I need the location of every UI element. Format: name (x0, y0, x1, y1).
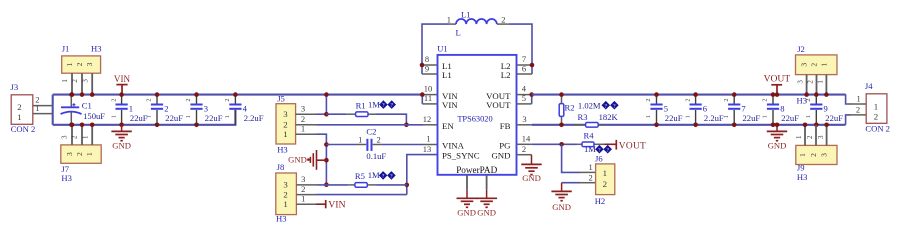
wire U1 pin 2 (GND) (517, 154, 532, 156)
inductor L1 (L) (447, 10, 509, 38)
svg-text:1: 1 (146, 115, 153, 118)
svg-text:1: 1 (283, 199, 287, 209)
svg-text:12: 12 (423, 114, 432, 124)
svg-text:1: 1 (588, 162, 592, 172)
svg-text:3: 3 (301, 174, 305, 184)
header J5 (H3) (276, 94, 296, 155)
power flag VOUT (rail) (764, 74, 791, 95)
svg-text:H3: H3 (276, 214, 287, 224)
svg-text:2: 2 (874, 111, 878, 121)
wire PowerPAD pin left (466, 175, 468, 189)
svg-text:1: 1 (185, 115, 192, 118)
wire U1 pin 2 label (522, 144, 526, 154)
svg-text:VOUT: VOUT (619, 141, 646, 151)
wire U1 pin 9 (422, 63, 438, 74)
node junction J7 pins (70, 123, 95, 128)
wire R1 right to EN (376, 114, 406, 125)
svg-text:3: 3 (283, 109, 288, 119)
svg-text:1: 1 (447, 14, 451, 24)
wire VINA (C2 to U1.1) (382, 144, 438, 146)
svg-text:1: 1 (684, 115, 691, 118)
wire L1 loop left (422, 24, 450, 74)
resistor R5 (1M) (348, 170, 396, 187)
svg-text:14: 14 (522, 134, 531, 144)
svg-text:182K: 182K (599, 112, 619, 122)
resistor R3 (182K) (574, 112, 619, 127)
wire U1 pin 1 label (426, 134, 430, 144)
wire U1 pin 11 (422, 93, 437, 104)
svg-text:1: 1 (35, 103, 39, 113)
wire J1 pin 3 (81, 73, 92, 94)
svg-text:3: 3 (204, 104, 208, 114)
svg-text:PowerPAD: PowerPAD (456, 165, 497, 175)
header J6 (H2) (595, 154, 615, 206)
svg-text:22uF: 22uF (165, 113, 183, 123)
svg-text:3: 3 (796, 80, 804, 84)
svg-text:1: 1 (762, 115, 769, 118)
svg-text:22uF: 22uF (825, 113, 843, 123)
node junction C1 (69, 92, 74, 127)
svg-text:2: 2 (856, 104, 860, 114)
wire J3 vertical (52, 95, 54, 125)
wire U1 pin 6 (517, 63, 533, 74)
svg-text:2: 2 (501, 14, 505, 24)
svg-text:1M: 1M (368, 170, 380, 180)
svg-text:2: 2 (164, 104, 168, 114)
header J1 (H3) (62, 44, 102, 74)
header J8 (H3) (276, 162, 297, 224)
svg-text:J5: J5 (277, 94, 285, 104)
capacitor 5 (22uF) (645, 95, 682, 125)
svg-text:2: 2 (283, 120, 287, 130)
svg-text:2: 2 (71, 79, 79, 83)
svg-text:1: 1 (723, 115, 730, 118)
svg-text:4: 4 (522, 84, 527, 94)
svg-text:H3: H3 (277, 144, 288, 154)
svg-text:3: 3 (522, 114, 526, 124)
svg-text:2: 2 (17, 102, 21, 112)
node junction pin 10 (420, 92, 425, 97)
resistor R1 (1M) (346, 99, 396, 116)
svg-text:H3: H3 (61, 173, 72, 183)
svg-text:1: 1 (129, 104, 133, 114)
capacitor 9 (22uF) (805, 95, 843, 125)
wire J4 pin 1 (846, 93, 867, 104)
svg-text:GND: GND (288, 154, 307, 164)
svg-text:2: 2 (809, 153, 818, 157)
svg-text:5: 5 (522, 93, 526, 103)
svg-text:3: 3 (61, 135, 69, 139)
svg-text:3: 3 (301, 104, 305, 114)
svg-text:GND: GND (768, 141, 787, 151)
wire R1 left (326, 113, 346, 115)
svg-text:1: 1 (426, 134, 430, 144)
svg-text:R4: R4 (584, 131, 595, 141)
svg-text:13: 13 (423, 144, 432, 154)
svg-text:J6: J6 (595, 154, 603, 164)
node junction cap9 (814, 92, 819, 127)
svg-text:1: 1 (85, 152, 94, 156)
capacitor C2 (0.1uF) (326, 127, 386, 161)
svg-text:22uF: 22uF (665, 113, 683, 123)
svg-text:4: 4 (243, 104, 248, 114)
wire J6 pin 2 (562, 173, 596, 183)
capacitor C1 (150uF) (61, 95, 106, 125)
node junction GND flag right (775, 123, 780, 128)
capacitor 3 (22uF) (185, 95, 222, 125)
svg-text:L1: L1 (442, 70, 452, 80)
svg-text:9: 9 (425, 63, 429, 73)
wire L1 loop right (509, 24, 532, 74)
svg-text:PG: PG (499, 141, 511, 151)
wire FB stub (517, 124, 532, 126)
svg-text:1: 1 (224, 115, 231, 118)
wire J5 pin 1 (296, 124, 317, 135)
svg-text:11: 11 (424, 93, 432, 103)
capacitor 8 (22uF) (762, 95, 799, 125)
svg-text:1: 1 (805, 115, 812, 118)
node junction VIN tie (324, 92, 329, 116)
svg-text:3: 3 (817, 135, 825, 139)
ground U1 pin 2 (521, 155, 541, 184)
node GND bottom rail (right) (532, 124, 846, 126)
svg-text:R1: R1 (356, 100, 366, 110)
svg-text:22uF: 22uF (205, 113, 223, 123)
svg-text:2: 2 (810, 63, 819, 67)
svg-text:L1: L1 (461, 10, 471, 20)
wire J7 pin 2 (71, 125, 82, 145)
svg-text:L2: L2 (501, 70, 511, 80)
svg-text:1M: 1M (368, 99, 380, 109)
svg-text:1: 1 (301, 124, 305, 134)
node VOUT top rail (right) (532, 94, 846, 96)
wire J7 pin 3 (61, 125, 72, 145)
header J2 (H3) (796, 44, 838, 105)
svg-text:2: 2 (376, 134, 380, 144)
svg-text:22uF: 22uF (781, 113, 799, 123)
node junction C2 branch (324, 142, 329, 147)
svg-text:2: 2 (75, 152, 84, 156)
svg-text:2: 2 (806, 135, 814, 139)
svg-text:1: 1 (17, 112, 21, 122)
svg-text:2: 2 (185, 98, 192, 101)
svg-text:2: 2 (283, 190, 287, 200)
wire J2 pin 3 (796, 75, 806, 95)
ground PowerPAD right (476, 189, 497, 217)
svg-text:VIN: VIN (442, 100, 458, 110)
svg-text:2: 2 (522, 144, 526, 154)
node junction R5/PS_SYNC (405, 183, 410, 188)
wire J2 pin 2 (807, 75, 817, 95)
wire U1 pin 3 label (522, 114, 526, 124)
svg-text:1: 1 (358, 134, 362, 144)
wire U1 pin 13 label (423, 144, 432, 154)
IC U1 TPS63020 (437, 44, 516, 176)
svg-text:2: 2 (110, 98, 117, 101)
node junction VOUT flag (775, 92, 780, 97)
capacitor 6 (2.2uF) (684, 95, 724, 125)
wire U1 pin 5 (517, 93, 532, 104)
svg-text:3: 3 (81, 79, 89, 83)
svg-text:C2: C2 (366, 127, 376, 137)
node junction pin 8 (420, 63, 425, 68)
capacitor 1 (22uF) (110, 95, 147, 125)
wire J5 pin 3 (296, 104, 327, 115)
svg-text:1: 1 (795, 135, 803, 139)
node junction cap4 (233, 92, 238, 97)
wire U1 pin 14 label (522, 134, 531, 144)
node junction J2 pins (804, 92, 828, 97)
node junction cap6 (693, 92, 698, 127)
wire R5 right (377, 184, 407, 186)
wire J3 pin 2 (33, 95, 53, 106)
wire GND net vertical (317, 134, 327, 185)
svg-text:VINA: VINA (442, 141, 465, 151)
connector J4 CON 2 (865, 81, 890, 133)
svg-text:2: 2 (645, 98, 652, 101)
svg-text:R5: R5 (355, 171, 365, 181)
node junction PG/J6 (559, 142, 564, 147)
node junction cap1 (119, 92, 124, 127)
svg-text:3: 3 (85, 62, 94, 66)
wire J1 pin 1 (61, 73, 72, 94)
svg-text:FB: FB (500, 121, 511, 131)
svg-text:22uF: 22uF (743, 113, 761, 123)
wire J6 pin 1 (562, 144, 596, 172)
svg-text:R3: R3 (578, 112, 588, 122)
node junction cap8 (771, 92, 776, 127)
svg-text:H2: H2 (595, 196, 606, 206)
svg-text:3: 3 (65, 152, 74, 156)
power flag VOUT (PG) (605, 140, 647, 151)
svg-text:GND: GND (522, 173, 541, 183)
svg-text:2: 2 (146, 98, 153, 101)
svg-text:TPS63020: TPS63020 (457, 115, 492, 124)
wire J8 pin 2 (296, 184, 406, 195)
node junction cap7 (732, 92, 737, 127)
wire PG (U1.14) (517, 143, 578, 145)
resistor R4 (1M) (577, 131, 612, 154)
node junction R1/EN (404, 123, 409, 128)
ground PowerPAD left (457, 189, 478, 217)
svg-text:2: 2 (684, 98, 691, 101)
svg-text:VOUT: VOUT (764, 74, 791, 85)
svg-text:GND: GND (457, 208, 476, 218)
svg-text:2: 2 (603, 179, 607, 189)
svg-text:1: 1 (81, 135, 89, 139)
svg-text:1: 1 (283, 129, 287, 139)
connector J3 CON 2 (11, 82, 36, 134)
svg-text:1: 1 (819, 63, 828, 67)
svg-text:5: 5 (664, 104, 668, 114)
wire J5 pin 2 (296, 114, 317, 125)
svg-text:GND: GND (491, 151, 510, 161)
svg-text:1: 1 (817, 80, 825, 84)
svg-text:J8: J8 (277, 162, 285, 172)
ground J6 (551, 183, 571, 213)
svg-text:VOUT: VOUT (486, 100, 511, 110)
U1 pin names (442, 61, 511, 161)
node junction cap3 (194, 92, 199, 127)
node junction R2 (559, 92, 564, 127)
svg-text:7: 7 (741, 104, 746, 114)
power flag VIN (J8) (316, 199, 346, 210)
svg-text:1: 1 (61, 79, 69, 83)
svg-text:3: 3 (800, 63, 809, 67)
wire U1 pin 8 (422, 54, 438, 65)
svg-text:2.2uF: 2.2uF (244, 113, 264, 123)
wire J1 pin 2 (71, 73, 82, 94)
power flag GND (left) (288, 150, 326, 170)
svg-text:2: 2 (71, 135, 79, 139)
node junction pin 4 (529, 92, 534, 97)
wire PS_SYNC (U1.13) (407, 155, 438, 195)
node junction GND flag (324, 158, 329, 163)
wire EN (J5.2 to U1.12) (317, 124, 438, 126)
svg-text:2: 2 (807, 80, 815, 84)
svg-text:1.02M: 1.02M (578, 100, 601, 110)
svg-text:VIN: VIN (328, 199, 345, 210)
svg-text:GND: GND (112, 141, 131, 151)
wire J3 pin 1 (33, 103, 53, 114)
svg-text:150uF: 150uF (83, 111, 105, 121)
svg-text:1: 1 (645, 115, 652, 118)
svg-text:2: 2 (588, 173, 592, 183)
wire R5 left (326, 184, 348, 186)
svg-text:6: 6 (522, 63, 526, 73)
wire U1 pin 7 (517, 54, 533, 65)
svg-text:1: 1 (603, 168, 607, 178)
svg-text:1: 1 (856, 93, 860, 103)
wire J9 pin 3 (817, 125, 827, 146)
power flag VIN (114, 74, 131, 95)
svg-text:U1: U1 (437, 44, 448, 54)
capacitor 2 (22uF) (146, 95, 183, 125)
svg-text:J2: J2 (797, 44, 805, 54)
svg-text:1M: 1M (584, 144, 596, 154)
svg-text:J1: J1 (62, 44, 70, 54)
svg-text:L: L (456, 27, 461, 37)
wire J4 pin 2 (846, 104, 867, 125)
svg-text:2: 2 (723, 98, 730, 101)
svg-text:3: 3 (820, 153, 829, 157)
capacitor 4 (2.2uF) (224, 95, 264, 125)
svg-text:H3: H3 (91, 44, 102, 54)
wire J2 pin 1 (817, 75, 827, 95)
svg-text:2: 2 (301, 184, 305, 194)
svg-text:1: 1 (110, 115, 117, 118)
wire U1 pin 12 label (423, 114, 432, 124)
header J7 (H3) (61, 145, 101, 183)
wire U1 pin 4 (517, 84, 532, 95)
node GND bottom rail (left) (53, 110, 236, 125)
svg-text:J3: J3 (11, 82, 19, 92)
svg-text:10: 10 (424, 84, 433, 94)
svg-text:1: 1 (301, 193, 305, 203)
svg-text:H3: H3 (797, 172, 808, 182)
svg-text:R2: R2 (565, 103, 575, 113)
svg-text:9: 9 (824, 104, 828, 114)
ground output rail (767, 125, 787, 151)
svg-text:2: 2 (762, 98, 769, 101)
node VIN top rail (left) (53, 94, 423, 96)
svg-text:CON 2: CON 2 (865, 124, 890, 134)
node junction pin 7 (530, 63, 535, 68)
svg-text:CON 2: CON 2 (11, 124, 36, 134)
svg-text:EN: EN (442, 121, 454, 131)
svg-text:C1: C1 (82, 100, 92, 110)
wire J9 pin 2 (806, 125, 816, 146)
wire J8 pin 1 (296, 193, 316, 204)
wire PowerPAD pin right (486, 175, 488, 189)
capacitor 7 (22uF) (723, 95, 760, 125)
svg-text:3: 3 (283, 179, 288, 189)
svg-text:VIN: VIN (114, 74, 131, 84)
svg-text:PS_SYNC: PS_SYNC (442, 151, 480, 161)
node junction J9 pins (803, 123, 829, 128)
header J9 (H3) (796, 145, 837, 182)
ground under input caps (111, 125, 131, 151)
svg-text:1: 1 (874, 101, 878, 111)
node junction cap5 (654, 92, 659, 127)
svg-text:0.1uF: 0.1uF (366, 151, 386, 161)
wire J9 pin 1 (795, 125, 805, 146)
wire J7 pin 1 (81, 125, 92, 145)
svg-text:1: 1 (65, 62, 74, 66)
node junction J1 pins (70, 92, 95, 97)
node junction cap2 (155, 92, 160, 127)
svg-text:1: 1 (798, 153, 807, 157)
svg-text:2: 2 (75, 62, 84, 66)
wire VIN tie vertical (325, 95, 327, 115)
svg-text:2: 2 (805, 98, 812, 101)
svg-text:GND: GND (552, 202, 571, 212)
wire U1 pin 10 (422, 84, 437, 95)
svg-text:6: 6 (703, 104, 708, 114)
resistor R2 (1.02M) (559, 95, 619, 125)
svg-text:J4: J4 (865, 81, 873, 91)
svg-text:2.2uF: 2.2uF (704, 113, 724, 123)
node junction J8.3/R5 (324, 182, 329, 187)
svg-text:GND: GND (477, 208, 496, 218)
wire J8 pin 3 (296, 174, 326, 185)
svg-text:8: 8 (780, 104, 784, 114)
svg-text:2: 2 (224, 98, 231, 101)
